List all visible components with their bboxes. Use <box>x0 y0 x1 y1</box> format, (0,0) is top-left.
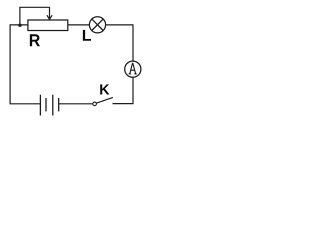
background <box>0 0 144 124</box>
node: junction dot on rheostat branch <box>18 24 21 27</box>
battery: short plate 2 <box>58 98 60 111</box>
switch K pivot <box>93 102 97 106</box>
lamp L <box>89 17 105 33</box>
wire: rheostat to lamp <box>68 24 90 26</box>
wire: lamp to top-right corner, down to ammeter apex <box>106 25 133 63</box>
label R <box>30 34 40 46</box>
ammeter <box>125 61 141 77</box>
battery: long plate 1 <box>39 95 41 116</box>
battery: short plate 1 <box>45 98 47 111</box>
resistor R (rheostat body) <box>28 20 68 31</box>
wire: left side (top-left corner, left vertical, bottom-left corner to battery) <box>10 25 40 104</box>
switch K blade <box>96 97 113 103</box>
wire: ammeter to bottom-right corner, left to switch contact <box>113 77 134 103</box>
label K <box>100 84 109 94</box>
wire: rheostat upper branch feeding wiper <box>20 7 50 25</box>
battery: long plate 2 <box>52 95 54 116</box>
label L <box>83 30 91 41</box>
wire: battery to switch pivot <box>59 103 93 105</box>
wiper arrow head <box>47 15 52 19</box>
ammeter face letter A <box>129 63 137 74</box>
